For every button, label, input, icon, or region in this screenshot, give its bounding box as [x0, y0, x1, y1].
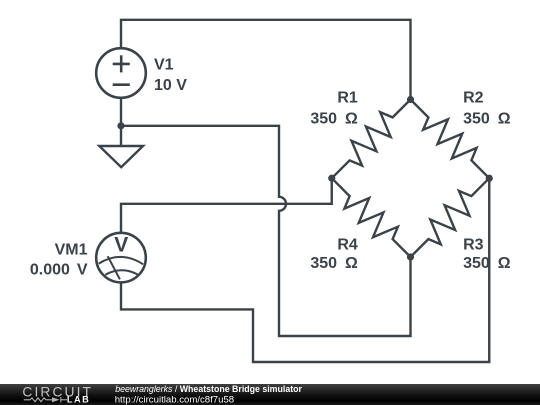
svg-text:VM1: VM1: [55, 241, 88, 258]
resistor R1: [332, 100, 411, 179]
svg-text:LAB: LAB: [67, 394, 90, 404]
svg-text:R3: R3: [463, 236, 484, 253]
node bridge left: [328, 175, 335, 182]
voltage source V1: [96, 48, 146, 98]
wire VM1 top to bridge left node: [121, 178, 332, 233]
wire ground node to bridge bottom (with hop): [121, 126, 411, 336]
svg-text:V: V: [114, 234, 128, 257]
svg-text:R1: R1: [337, 90, 358, 107]
svg-text:350 Ω: 350 Ω: [310, 255, 358, 272]
wire V1- to ground node: [120, 98, 122, 126]
logo resistor + diode glyph: [24, 397, 67, 402]
svg-text:350 Ω: 350 Ω: [463, 255, 511, 272]
svg-text:350 Ω: 350 Ω: [310, 111, 358, 128]
node ground junction: [117, 122, 124, 129]
resistor R4: [332, 178, 411, 257]
svg-text:R2: R2: [463, 90, 484, 107]
node bridge bottom: [407, 253, 414, 260]
node bridge right: [486, 175, 493, 182]
resistor R2: [411, 100, 490, 179]
svg-text:beewranglerks / Wheatstone Bri: beewranglerks / Wheatstone Bridge simula…: [115, 384, 302, 394]
svg-text:10 V: 10 V: [154, 77, 187, 94]
voltmeter VM1: [96, 233, 146, 283]
svg-text:350 Ω: 350 Ω: [463, 111, 511, 128]
svg-text:R4: R4: [337, 236, 358, 253]
wire VM1 bottom to bridge right node: [121, 178, 489, 362]
node bridge top: [407, 96, 414, 103]
ground: [99, 126, 143, 167]
svg-text:V1: V1: [154, 57, 174, 74]
wire top loop V1+ to bridge top: [121, 20, 411, 100]
svg-text:http://circuitlab.com/c8f7u58: http://circuitlab.com/c8f7u58: [115, 395, 234, 405]
resistor R3: [411, 178, 490, 257]
svg-text:0.000 V: 0.000 V: [30, 262, 88, 279]
